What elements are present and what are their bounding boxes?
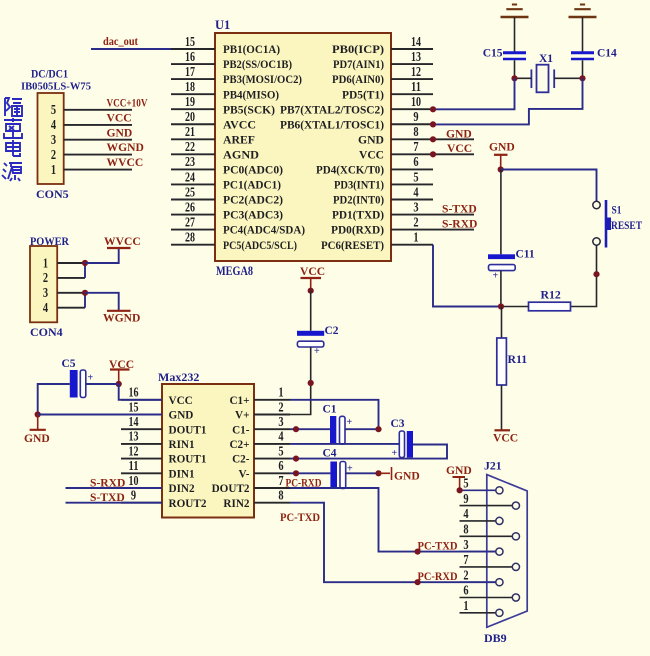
node VCC junction <box>308 288 314 294</box>
J21 pin 9 circle <box>512 502 519 509</box>
power port WVCC <box>107 247 131 249</box>
svg-text:PC4(ADC4/SDA): PC4(ADC4/SDA) <box>223 224 305 237</box>
svg-text:U1: U1 <box>215 18 230 32</box>
svg-text:2: 2 <box>278 399 284 414</box>
svg-text:V-: V- <box>239 468 250 480</box>
svg-text:21: 21 <box>185 124 195 139</box>
U1 pin 20 stub <box>171 123 215 125</box>
svg-text:VCC+10V: VCC+10V <box>107 96 148 109</box>
Max232 pin 13 stub <box>121 443 162 445</box>
svg-text:PD2(INT0): PD2(INT0) <box>333 194 384 207</box>
svg-text:23: 23 <box>185 154 195 169</box>
wire S-RXD to Max232 pin10 <box>66 487 163 489</box>
U1 pin 26 stub <box>171 214 215 216</box>
CON4 pin 2 line <box>57 277 85 279</box>
svg-text:24: 24 <box>185 169 195 184</box>
svg-text:8: 8 <box>463 522 469 537</box>
connector J21 (DB9) body <box>487 475 527 628</box>
J21 pin 8 line <box>460 535 513 537</box>
svg-text:6: 6 <box>413 154 419 169</box>
U1 pin 3 stub <box>391 214 433 216</box>
CON4 pin 3 line <box>57 292 85 294</box>
capacitor C1 <box>330 416 336 445</box>
svg-text:C15: C15 <box>483 48 503 60</box>
connector CON4 (POWER) body <box>30 246 57 322</box>
svg-text:ROUT1: ROUT1 <box>169 454 207 466</box>
Max232 pin 11 stub <box>121 472 162 474</box>
capacitor C15 <box>503 51 526 54</box>
svg-text:GND: GND <box>446 464 472 477</box>
svg-text:15: 15 <box>185 34 195 49</box>
U1 pin 23 stub <box>171 168 215 170</box>
wire Max232 pin7 to DB9 pin3 <box>290 488 496 552</box>
Max232 pin 9 stub <box>121 502 162 504</box>
U1 pin 18 stub <box>171 93 215 95</box>
Max232 pin 10 stub <box>121 487 162 489</box>
capacitor C2 <box>297 331 324 336</box>
node XTAL2 junction <box>511 75 517 81</box>
crystal X1 <box>531 65 554 93</box>
svg-text:15: 15 <box>129 399 139 414</box>
ground tick (C4) <box>379 472 391 474</box>
Max232 pin 16 stub <box>121 399 162 401</box>
CON5 pin 5 line <box>64 109 132 111</box>
wire Max232 pin8 to DB9 pin2 <box>290 503 496 583</box>
capacitor C11 <box>488 254 515 259</box>
svg-text:C1: C1 <box>323 404 337 416</box>
CON5 pin 1 line <box>64 169 132 171</box>
wire earth to C15 <box>514 17 516 52</box>
wire X1 right <box>554 77 582 79</box>
svg-text:14: 14 <box>129 414 139 429</box>
svg-text:1: 1 <box>51 162 56 177</box>
wire C5 to GND node <box>38 384 70 415</box>
node pin3 junction <box>293 426 299 432</box>
svg-text:S1: S1 <box>612 203 622 217</box>
Max232 pin 7 stub <box>254 487 290 489</box>
svg-text:3: 3 <box>278 414 284 429</box>
svg-text:C14: C14 <box>597 48 617 60</box>
vertical label 隔离电源 (isolated power) <box>2 98 22 181</box>
svg-text:DOUT2: DOUT2 <box>212 483 250 495</box>
capacitor C14 <box>571 51 594 54</box>
svg-text:VCC: VCC <box>447 142 472 155</box>
svg-text:PC2(ADC2): PC2(ADC2) <box>223 194 283 207</box>
svg-text:PD3(INT1): PD3(INT1) <box>334 179 384 192</box>
node C1 right junction <box>375 426 381 432</box>
svg-text:VCC: VCC <box>169 395 193 407</box>
svg-text:C2: C2 <box>325 325 339 337</box>
svg-text:WVCC: WVCC <box>107 156 144 169</box>
svg-text:2: 2 <box>463 567 469 582</box>
node DB9 pin5 junction <box>457 487 463 493</box>
svg-text:C2+: C2+ <box>229 439 249 451</box>
U1 pin 22 stub <box>171 153 215 155</box>
svg-text:20: 20 <box>185 109 195 124</box>
svg-text:5: 5 <box>413 169 419 184</box>
svg-text:GND: GND <box>169 410 194 422</box>
J21 pin 4 circle <box>496 517 503 524</box>
J21 pin 1 circle <box>496 609 503 616</box>
J21 pin 5 line <box>460 489 496 491</box>
capacitor C5 <box>70 370 78 398</box>
wire XTAL1 node to U1 pin 9 <box>433 78 583 124</box>
svg-text:PD4(XCK/T0): PD4(XCK/T0) <box>316 164 384 177</box>
U1 pin 17 stub <box>171 78 215 80</box>
svg-text:PB6(XTAL1/TOSC1): PB6(XTAL1/TOSC1) <box>280 118 384 131</box>
wire C14 to node XTAL1 <box>582 60 584 78</box>
svg-text:GND: GND <box>446 127 472 140</box>
svg-text:22: 22 <box>185 139 195 154</box>
svg-text:+: + <box>493 271 499 282</box>
svg-text:J21: J21 <box>484 459 502 473</box>
svg-text:4: 4 <box>51 117 57 132</box>
svg-text:PC-RXD: PC-RXD <box>418 570 458 583</box>
Max232 pin 14 stub <box>121 428 162 430</box>
node pin5 junction <box>293 456 299 462</box>
node pin9 junction <box>430 121 436 127</box>
U1 pin 7 stub <box>391 153 433 155</box>
wire GND node to switch S1 <box>501 170 597 202</box>
svg-text:IB0505LS-W75: IB0505LS-W75 <box>21 81 91 93</box>
svg-text:18: 18 <box>185 79 195 94</box>
svg-text:DIN1: DIN1 <box>169 468 196 480</box>
U1 pin 13 stub <box>391 63 433 65</box>
U1 pin 21 stub <box>171 138 215 140</box>
capacitor C3 <box>399 431 404 458</box>
svg-text:+: + <box>392 448 398 459</box>
CON5 pin 4 line <box>64 124 132 126</box>
U1 pin 8 net line <box>433 138 474 140</box>
svg-text:7: 7 <box>413 139 419 154</box>
svg-text:26: 26 <box>185 199 195 214</box>
U1 pin 2 stub <box>391 229 433 231</box>
svg-text:PB1(OC1A): PB1(OC1A) <box>223 43 280 56</box>
node on C2 wire <box>308 380 314 386</box>
wire VCC to C2 <box>310 291 312 331</box>
svg-text:3: 3 <box>463 537 469 552</box>
ground (earth) above C14 <box>580 4 585 6</box>
svg-text:VCC: VCC <box>300 265 325 278</box>
svg-text:PD7(AIN1): PD7(AIN1) <box>333 58 384 71</box>
svg-text:27: 27 <box>185 214 195 229</box>
node pin10 junction <box>430 106 436 112</box>
wire S1 to R12 <box>571 245 597 306</box>
capacitor C4 <box>330 462 337 489</box>
svg-text:17: 17 <box>185 64 195 79</box>
svg-text:R11: R11 <box>508 352 528 366</box>
svg-text:8: 8 <box>278 488 284 503</box>
Max232 pin 6 stub <box>254 472 290 474</box>
svg-text:V+: V+ <box>235 410 249 422</box>
J21 pin 6 circle <box>512 594 519 601</box>
node GND/C5 junction <box>35 411 41 417</box>
svg-text:1: 1 <box>278 385 283 400</box>
U1 pin 25 stub <box>171 199 215 201</box>
svg-text:3: 3 <box>43 285 49 300</box>
U1 pin 6 stub <box>391 168 433 170</box>
Max232 pin 2 stub <box>254 414 290 416</box>
wire VCC node to Max232 pin16 <box>119 384 162 400</box>
node CON4 pin1 junction <box>82 260 88 266</box>
svg-text:GND: GND <box>394 470 420 483</box>
node below S1 <box>593 271 599 277</box>
svg-text:C1+: C1+ <box>229 395 249 407</box>
svg-text:+: + <box>347 417 353 428</box>
U1 pin 8 stub <box>391 138 433 140</box>
svg-text:PC6(RESET): PC6(RESET) <box>321 239 384 252</box>
svg-text:10: 10 <box>129 473 139 488</box>
wire CON4 pin1-pin2 join <box>84 263 86 278</box>
U1 pin 19 stub <box>171 108 215 110</box>
svg-text:3: 3 <box>51 132 57 147</box>
J21 pin 2 line <box>460 581 496 583</box>
svg-text:9: 9 <box>463 491 469 506</box>
svg-text:POWER: POWER <box>30 234 69 248</box>
U1 pin 27 stub <box>171 229 215 231</box>
svg-text:PC5(ADC5/SCL): PC5(ADC5/SCL) <box>223 239 297 252</box>
svg-text:6: 6 <box>463 583 469 598</box>
svg-text:RIN2: RIN2 <box>223 498 250 510</box>
Max232 pin 5 stub <box>254 458 290 460</box>
svg-text:14: 14 <box>411 34 421 49</box>
svg-text:MEGA8: MEGA8 <box>216 264 253 278</box>
CON5 pin 3 line <box>64 139 132 141</box>
U1 pin 4 stub <box>391 199 433 201</box>
svg-text:9: 9 <box>131 488 137 503</box>
node VCC/C5 junction <box>116 381 122 387</box>
svg-text:2: 2 <box>413 214 419 229</box>
svg-text:9: 9 <box>413 109 419 124</box>
svg-text:VCC: VCC <box>107 112 132 125</box>
CON4 pin 1 line <box>57 262 85 264</box>
svg-text:PB3(MOSI/OC2): PB3(MOSI/OC2) <box>223 73 302 86</box>
svg-text:PB4(MISO): PB4(MISO) <box>223 88 279 101</box>
U1 pin 16 stub <box>171 63 215 65</box>
svg-text:AVCC: AVCC <box>223 118 256 131</box>
node pin7 junction <box>430 151 436 157</box>
svg-text:WGND: WGND <box>103 312 140 325</box>
wire C2 to MAX232 V+ <box>290 347 311 415</box>
svg-text:RESET: RESET <box>611 218 642 232</box>
wire C11 to reset node <box>500 271 502 307</box>
wire C5 to VCC node <box>86 383 119 385</box>
wire CON4 pin1 to WVCC <box>85 249 119 263</box>
Max232 pin 12 stub <box>121 458 162 460</box>
U1 pin 3 net line <box>433 214 474 216</box>
svg-text:GND: GND <box>24 432 50 445</box>
Max232 pin 8 stub <box>254 502 290 504</box>
svg-text:X1: X1 <box>539 53 553 65</box>
wire C1 right plate <box>345 428 379 430</box>
Max232 pin 1 stub <box>254 399 290 401</box>
svg-text:PD1(TXD): PD1(TXD) <box>332 209 384 222</box>
svg-text:PB5(SCK): PB5(SCK) <box>223 103 275 116</box>
op-amp U2 (Max232) body <box>162 384 254 518</box>
wire earth to C14 <box>582 17 584 52</box>
U1 pin 28 stub <box>171 244 215 246</box>
svg-text:PD0(RXD): PD0(RXD) <box>331 224 384 237</box>
J21 pin 2 circle <box>496 579 503 586</box>
U1 pin 14 stub <box>391 48 433 50</box>
wire GND node to Max232 pin15 <box>38 414 162 416</box>
svg-text:3: 3 <box>413 199 419 214</box>
node GND junction <box>498 166 504 172</box>
svg-text:1: 1 <box>43 255 48 270</box>
svg-text:PB7(XTAL2/TOSC2): PB7(XTAL2/TOSC2) <box>280 103 384 116</box>
svg-text:16: 16 <box>129 385 139 400</box>
svg-text:PC0(ADC0): PC0(ADC0) <box>223 164 283 177</box>
svg-text:4: 4 <box>43 300 49 315</box>
J21 pin 3 line <box>460 551 496 553</box>
svg-text:C11: C11 <box>516 249 535 261</box>
svg-text:GND: GND <box>107 126 133 139</box>
svg-text:S-TXD: S-TXD <box>90 491 125 504</box>
svg-text:S-TXD: S-TXD <box>442 203 477 216</box>
U1 pin 12 stub <box>391 78 433 80</box>
svg-text:S-RXD: S-RXD <box>442 218 477 231</box>
wire C4 right to GND <box>346 472 379 474</box>
wire reset node to R11 <box>501 307 503 339</box>
svg-text:12: 12 <box>411 64 421 79</box>
svg-text:13: 13 <box>129 429 139 444</box>
wire XTAL2 node to U1 pin 10 <box>433 78 515 109</box>
svg-text:11: 11 <box>129 458 139 473</box>
svg-text:VCC: VCC <box>493 432 518 445</box>
svg-text:16: 16 <box>185 49 195 64</box>
node CON4 pin3 junction <box>82 290 88 296</box>
wire Max232 pin3 to C1 <box>290 428 330 430</box>
wire U1 pin1 to reset node <box>433 245 501 307</box>
svg-text:S-RXD: S-RXD <box>90 476 125 489</box>
node pin6 junction <box>293 470 299 476</box>
svg-text:DIN2: DIN2 <box>169 483 196 495</box>
wire GND node down to C11 <box>500 170 502 255</box>
transistor S1 (push-button RESET) <box>593 201 600 208</box>
svg-text:VCC: VCC <box>359 148 384 161</box>
node XTAL1 junction <box>579 75 585 81</box>
U1 pin 24 stub <box>171 183 215 185</box>
svg-text:1: 1 <box>463 598 468 613</box>
svg-text:C1-: C1- <box>232 424 250 436</box>
svg-text:7: 7 <box>463 552 469 567</box>
svg-text:4: 4 <box>463 506 469 521</box>
U1 pin 10 stub <box>391 108 433 110</box>
svg-text:4: 4 <box>278 429 284 444</box>
resistor R12 <box>529 302 571 311</box>
wire dac_out <box>91 48 172 50</box>
U1 pin 2 net line <box>433 229 474 231</box>
svg-text:25: 25 <box>185 184 195 199</box>
svg-text:WGND: WGND <box>107 141 144 154</box>
svg-text:CON5: CON5 <box>36 187 69 201</box>
svg-text:PB2(SS/OC1B): PB2(SS/OC1B) <box>223 58 292 71</box>
J21 pin 9 line <box>460 505 513 507</box>
svg-text:4: 4 <box>413 184 419 199</box>
wire S-TXD to Max232 pin9 <box>66 502 163 504</box>
wire CON4 pin3 to WGND <box>85 293 119 310</box>
power port WGND <box>107 310 131 312</box>
ground (earth) above C15 <box>512 4 517 6</box>
svg-text:WVCC: WVCC <box>104 235 141 248</box>
node reset junction <box>498 303 504 309</box>
svg-text:C4: C4 <box>323 447 337 459</box>
svg-text:C5: C5 <box>62 358 76 370</box>
J21 pin 1 line <box>460 612 496 614</box>
svg-text:CON4: CON4 <box>30 325 63 339</box>
svg-text:2: 2 <box>51 147 57 162</box>
svg-text:PC1(ADC1): PC1(ADC1) <box>223 179 281 192</box>
power port VCC (below R11) <box>495 429 511 431</box>
svg-text:10: 10 <box>411 94 421 109</box>
svg-text:6: 6 <box>278 458 284 473</box>
svg-text:C3: C3 <box>391 418 405 430</box>
Max232 pin 15 stub <box>121 414 162 416</box>
svg-text:dac_out: dac_out <box>103 34 138 48</box>
wire Max232 pin1 to C1+ <box>290 400 379 429</box>
svg-text:12: 12 <box>129 443 139 458</box>
svg-text:PC-TXD: PC-TXD <box>280 511 320 524</box>
node C4/GND junction <box>375 470 381 476</box>
U1 pin 15 stub <box>171 48 215 50</box>
U1 pin 7 net line <box>433 153 474 155</box>
op-amp U1 (MEGA8 MCU) body <box>215 33 391 261</box>
J21 pin 3 circle <box>496 548 503 555</box>
svg-text:AREF: AREF <box>223 133 255 146</box>
J21 pin 5 circle <box>496 487 503 494</box>
svg-text:R12: R12 <box>541 288 561 302</box>
svg-text:13: 13 <box>411 49 421 64</box>
J21 pin 4 line <box>460 520 496 522</box>
J21 pin 7 circle <box>512 563 519 570</box>
svg-text:7: 7 <box>278 473 284 488</box>
node pin8 junction <box>430 136 436 142</box>
node PC-TXD label anchor <box>415 549 421 555</box>
U1 pin 11 stub <box>391 93 433 95</box>
svg-text:DC/DC1: DC/DC1 <box>31 67 68 81</box>
svg-text:2: 2 <box>43 270 49 285</box>
U1 pin 5 stub <box>391 183 433 185</box>
svg-text:PC3(ADC3): PC3(ADC3) <box>223 209 283 222</box>
svg-text:PC-TXD: PC-TXD <box>418 540 458 553</box>
svg-text:PD6(AIN0): PD6(AIN0) <box>332 73 384 86</box>
Max232 pin 3 stub <box>254 428 290 430</box>
svg-text:DB9: DB9 <box>484 631 507 645</box>
svg-text:5: 5 <box>51 102 57 117</box>
Max232 pin 4 stub <box>254 443 290 445</box>
svg-text:RIN1: RIN1 <box>169 439 196 451</box>
wire X1 left <box>515 77 532 79</box>
J21 pin 6 line <box>460 597 513 599</box>
resistor R11 <box>497 338 507 385</box>
svg-text:19: 19 <box>185 94 195 109</box>
node PC-RXD label anchor <box>415 579 421 585</box>
svg-text:11: 11 <box>411 79 421 94</box>
svg-text:5: 5 <box>278 443 284 458</box>
wire Max232 pin6 to C4 <box>290 472 330 474</box>
power port GND (below C5) <box>37 415 39 430</box>
wire C3 right to Max232 pin5 <box>290 445 447 459</box>
svg-text:PD5(T1): PD5(T1) <box>342 88 384 101</box>
svg-text:GND: GND <box>489 141 515 154</box>
wire R11 to VCC <box>501 385 503 430</box>
J21 pin 8 circle <box>512 533 519 540</box>
CON5 pin 2 line <box>64 154 132 156</box>
svg-text:28: 28 <box>185 229 195 244</box>
svg-text:C2-: C2- <box>232 454 250 466</box>
svg-text:GND: GND <box>358 133 384 146</box>
wire Max232 pin4 to C3 <box>290 443 399 445</box>
